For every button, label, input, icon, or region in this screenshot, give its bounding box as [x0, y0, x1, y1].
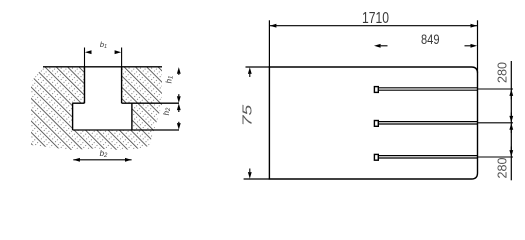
T-slot pin 2 pad [374, 121, 378, 127]
svg-text:b1: b1 [100, 40, 107, 50]
dimension 1710 line [269, 25, 477, 27]
cavity width arrows [73, 158, 80, 162]
plate top edge left extension [246, 66, 270, 68]
dimension 849 right arrow [471, 44, 478, 48]
cavity right wall [131, 103, 133, 130]
svg-text:280: 280 [496, 62, 510, 83]
dimension 849 left arrow [374, 44, 381, 48]
svg-text:1710: 1710 [362, 10, 389, 27]
hatched material of T-slot cross-section [31, 67, 162, 150]
svg-text:h2: h2 [162, 107, 172, 115]
T-slot pin 2 lines [379, 122, 478, 124]
slot depth chain bottom arrow [177, 123, 181, 130]
slot depth chain middle arrows [177, 96, 181, 103]
svg-text:849: 849 [421, 31, 440, 47]
right slot-spacing extension line 1 [478, 88, 514, 90]
svg-text:h1: h1 [165, 76, 175, 84]
cavity left wall [72, 103, 74, 130]
plate bottom edge left extension [244, 178, 270, 180]
svg-text:b2: b2 [100, 149, 108, 159]
top surface line [43, 66, 162, 68]
plate height dimension top arrow [248, 67, 252, 74]
spacing dim 2 arrows [509, 123, 513, 130]
slot right wall [121, 67, 123, 103]
dimension 1710 arrows [270, 24, 277, 28]
spacing dim 1 arrows [509, 89, 513, 96]
svg-text:280: 280 [496, 157, 510, 178]
slot left wall [84, 67, 86, 103]
slot depth chain top arrow [177, 67, 181, 74]
left extension line up to 1710 dimension [268, 20, 270, 67]
T-slot pin 1 lines [379, 88, 478, 90]
right extension line up to 1710 dimension [477, 20, 479, 73]
step shoulder right with extension line [122, 102, 179, 104]
table plate outline with rounded right corners [269, 67, 477, 179]
T-slot pin 1 pad [374, 87, 378, 93]
step shoulder left [73, 102, 85, 104]
right slot-spacing extension line 3 [478, 156, 514, 158]
T-slot pin 3 pad [374, 154, 378, 160]
svg-text:75: 75 [241, 105, 255, 127]
slot width dimension extension lines [85, 48, 122, 67]
right slot-spacing extension line 2 [478, 122, 514, 124]
T-slot pin 3 lines [379, 156, 478, 158]
cavity bottom line with extension [73, 129, 179, 131]
slot width dimension arrows [85, 50, 92, 54]
right dimension line vertical [510, 61, 512, 180]
plate height dimension bottom arrow [248, 172, 252, 179]
cavity width dimension line [73, 159, 131, 161]
